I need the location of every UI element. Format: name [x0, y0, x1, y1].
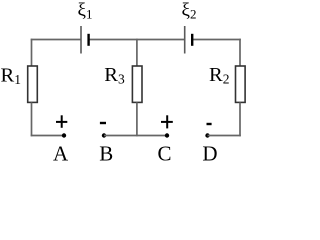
battery E1 short plate: [87, 34, 89, 46]
svg-text:B: B: [99, 142, 113, 166]
resistor R1: [28, 66, 38, 102]
node C dot: [165, 133, 169, 137]
svg-text:R1: R1: [1, 65, 21, 88]
node D dot: [205, 133, 209, 137]
battery E2 long plate: [184, 26, 186, 54]
resistor R2: [236, 66, 246, 102]
svg-text:D: D: [202, 142, 217, 166]
minus sign at B: [100, 122, 106, 124]
svg-text:R2: R2: [209, 64, 229, 87]
svg-text:R3: R3: [104, 64, 125, 87]
battery E1 long plate: [80, 26, 82, 54]
svg-text:ξ2: ξ2: [182, 0, 197, 21]
svg-text:C: C: [157, 142, 171, 166]
wire top-left horizontal: [31, 39, 81, 41]
plus sign at A: [56, 121, 67, 123]
wire R3 vertical upper: [136, 39, 138, 67]
wire right vertical upper: [239, 39, 241, 67]
resistor R3: [132, 66, 142, 102]
wire left vertical upper: [31, 39, 33, 67]
svg-text:ξ1: ξ1: [78, 0, 93, 21]
svg-text:A: A: [53, 142, 69, 166]
wire bottom B to C: [104, 135, 167, 137]
wire bottom D to right: [208, 135, 241, 137]
wire right vertical lower: [239, 102, 241, 136]
wire top-right horizontal: [192, 39, 241, 41]
minus sign at D: [207, 123, 212, 125]
wire top-middle horizontal: [89, 39, 185, 41]
wire left vertical lower: [31, 102, 33, 136]
plus sign at C: [161, 121, 173, 123]
wire bottom-left to A: [31, 135, 64, 137]
battery E2 short plate: [191, 34, 193, 46]
wire R3 vertical lower: [136, 102, 138, 136]
node B dot: [102, 133, 106, 137]
node A dot: [62, 133, 66, 137]
